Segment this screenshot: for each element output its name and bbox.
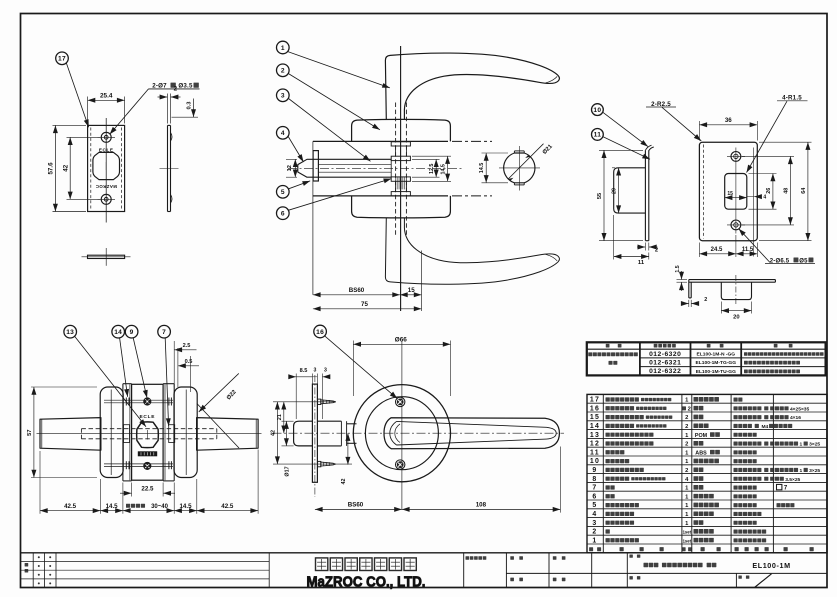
svg-text:2.5: 2.5 — [183, 343, 191, 349]
svg-text:BS60: BS60 — [348, 502, 364, 509]
svg-text:2: 2 — [281, 68, 285, 75]
svg-text:15: 15 — [727, 191, 733, 197]
svg-text:2: 2 — [688, 406, 691, 412]
svg-text:ECLE: ECLE — [99, 147, 114, 152]
svg-text:ABS: ABS — [695, 450, 707, 456]
svg-text:8: 8 — [592, 476, 597, 483]
svg-text:6: 6 — [592, 493, 597, 500]
svg-text:2: 2 — [592, 529, 597, 536]
svg-text:4: 4 — [281, 130, 285, 137]
svg-text:12: 12 — [287, 165, 293, 171]
svg-text:3×25: 3×25 — [809, 442, 820, 448]
svg-text:17: 17 — [590, 397, 600, 404]
svg-text:BS60: BS60 — [349, 287, 365, 294]
svg-text:64: 64 — [801, 188, 807, 194]
svg-text:ECLE: ECLE — [140, 414, 156, 420]
svg-text:25.4: 25.4 — [100, 93, 113, 100]
svg-text:14.5: 14.5 — [106, 503, 119, 510]
svg-text:14.5: 14.5 — [479, 163, 485, 174]
svg-text:2: 2 — [655, 248, 658, 254]
svg-text:5: 5 — [281, 189, 285, 196]
svg-text:4: 4 — [763, 195, 766, 201]
svg-text:6: 6 — [281, 211, 285, 218]
svg-text:1: 1 — [799, 468, 802, 474]
svg-text:4×25×35: 4×25×35 — [790, 406, 810, 412]
svg-text:2: 2 — [685, 424, 688, 430]
svg-text:11: 11 — [594, 132, 602, 139]
svg-text:Ø66: Ø66 — [395, 337, 408, 344]
svg-text:3.5×25: 3.5×25 — [785, 477, 800, 483]
svg-text:14.5: 14.5 — [179, 503, 192, 510]
svg-text:13: 13 — [66, 329, 74, 336]
svg-text:24.5: 24.5 — [711, 247, 723, 253]
svg-text:3: 3 — [324, 367, 327, 373]
svg-text:75: 75 — [361, 301, 368, 308]
svg-text:10: 10 — [590, 458, 600, 465]
svg-text:22.5: 22.5 — [141, 485, 154, 492]
svg-text:30~40: 30~40 — [151, 504, 169, 510]
svg-text:15: 15 — [408, 287, 415, 294]
svg-text:0.3: 0.3 — [186, 101, 192, 110]
svg-text:EL100-1M-TG-GG: EL100-1M-TG-GG — [696, 360, 737, 366]
svg-text:16: 16 — [590, 405, 600, 412]
svg-text:10: 10 — [593, 107, 601, 114]
svg-text:012-6321: 012-6321 — [649, 360, 681, 367]
svg-text:14: 14 — [114, 329, 122, 336]
svg-text:2: 2 — [704, 297, 707, 303]
svg-text:4×16: 4×16 — [790, 415, 801, 421]
svg-text:1set: 1set — [683, 530, 692, 535]
svg-text:4: 4 — [592, 511, 597, 518]
svg-text:0.5: 0.5 — [185, 359, 193, 365]
svg-text:16: 16 — [316, 329, 324, 336]
svg-text:15: 15 — [590, 414, 600, 421]
svg-text:EL100-1M-TU-GG: EL100-1M-TU-GG — [696, 369, 736, 375]
svg-text:2: 2 — [685, 468, 688, 474]
svg-text:012-6322: 012-6322 — [649, 368, 681, 375]
svg-text:13: 13 — [590, 432, 600, 439]
svg-text:2: 2 — [685, 415, 688, 421]
svg-text:012-6320: 012-6320 — [649, 351, 681, 358]
svg-text:42: 42 — [341, 479, 347, 485]
svg-text:11: 11 — [590, 449, 600, 456]
svg-text:9: 9 — [592, 467, 597, 474]
svg-text:7: 7 — [162, 329, 166, 336]
svg-text:1: 1 — [592, 537, 597, 544]
svg-text:42.5: 42.5 — [221, 503, 234, 510]
svg-text:48: 48 — [783, 188, 789, 194]
svg-text:26: 26 — [766, 188, 772, 194]
svg-text:11.5: 11.5 — [742, 247, 754, 253]
svg-text:12: 12 — [590, 441, 600, 448]
svg-text:42: 42 — [62, 164, 69, 171]
svg-text:EL100-1M-N -GG: EL100-1M-N -GG — [697, 352, 736, 358]
svg-text:MaZROC CO., LTD.: MaZROC CO., LTD. — [307, 574, 426, 590]
svg-text:MAZROC: MAZROC — [95, 184, 117, 189]
svg-text:Ø17: Ø17 — [285, 466, 291, 476]
svg-text:14: 14 — [590, 423, 600, 430]
svg-text:57: 57 — [27, 429, 33, 435]
svg-text:21: 21 — [277, 414, 283, 420]
svg-text:8.5: 8.5 — [300, 368, 308, 374]
svg-text:7: 7 — [592, 485, 597, 492]
svg-text:57.6: 57.6 — [48, 162, 55, 175]
svg-text:9: 9 — [130, 329, 134, 336]
svg-text:1.5: 1.5 — [675, 265, 681, 272]
svg-text:3: 3 — [592, 520, 597, 527]
svg-text:2: 2 — [685, 442, 688, 448]
svg-text:3: 3 — [314, 367, 317, 373]
svg-text:1set: 1set — [683, 538, 692, 543]
svg-text:11: 11 — [638, 260, 645, 266]
svg-text:POM: POM — [695, 433, 708, 439]
svg-text:29: 29 — [611, 188, 617, 194]
svg-text:36: 36 — [725, 117, 732, 124]
svg-text:3×25: 3×25 — [809, 468, 820, 474]
svg-text:1: 1 — [281, 45, 285, 52]
svg-text:3: 3 — [281, 93, 285, 100]
svg-text:EL100-1M: EL100-1M — [752, 561, 790, 570]
svg-text:17: 17 — [58, 56, 66, 63]
svg-text:M4: M4 — [761, 424, 768, 430]
svg-text:108: 108 — [476, 502, 487, 509]
svg-text:42: 42 — [271, 430, 277, 436]
svg-text:2: 2 — [174, 86, 178, 93]
svg-text:14.5: 14.5 — [441, 164, 447, 175]
svg-text:5: 5 — [592, 502, 597, 509]
svg-text:12.5: 12.5 — [429, 164, 435, 175]
svg-text:1: 1 — [799, 442, 802, 448]
svg-text:55: 55 — [597, 193, 603, 199]
svg-text:42.5: 42.5 — [64, 503, 77, 510]
svg-text:20: 20 — [733, 314, 739, 320]
